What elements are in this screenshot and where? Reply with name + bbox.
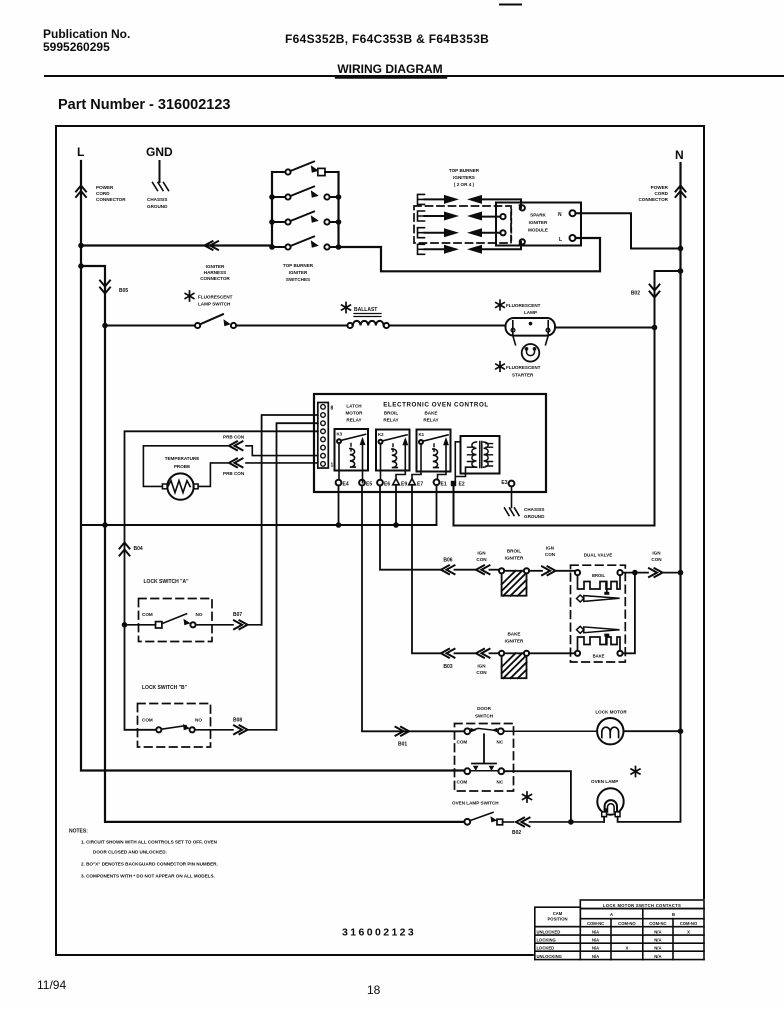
lock motor: [595, 710, 627, 715]
wire E5 drop to door switch feed (B01): [362, 486, 464, 732]
svg-text:18: 18: [367, 983, 381, 997]
top burner igniter switches: [272, 172, 339, 247]
svg-text:GROUND: GROUND: [524, 514, 545, 519]
svg-text:NO: NO: [196, 612, 203, 617]
svg-text:FLUORESCENT: FLUORESCENT: [506, 365, 541, 370]
svg-text:E6: E6: [384, 482, 390, 488]
broil igniter: [505, 549, 524, 561]
svg-text:PRB CON: PRB CON: [223, 435, 245, 440]
svg-text:OVEN LAMP: OVEN LAMP: [591, 779, 618, 784]
svg-text:BAKE: BAKE: [507, 632, 520, 637]
terminal E2: [451, 481, 456, 486]
svg-text:B04: B04: [134, 546, 143, 552]
junction dot: [78, 243, 84, 249]
connector B08: [234, 725, 248, 734]
wire to ballast: [236, 325, 347, 327]
svg-text:RELAY: RELAY: [346, 418, 361, 423]
wire ballast to fluorescent lamp: [389, 325, 506, 327]
svg-text:POSITION: POSITION: [547, 917, 567, 922]
relay K2 (broil relay): [383, 411, 398, 423]
wire lamp to N-branch junction: [555, 327, 655, 329]
junction dot B05 tee: [78, 263, 84, 269]
wire door NC top to lock motor: [504, 730, 597, 732]
svg-text:N/A: N/A: [592, 938, 599, 943]
svg-text:N/A: N/A: [592, 946, 599, 951]
wire pin6 to lock switch B (B08): [277, 423, 318, 730]
wire probe left loop to PRB CON / pin 2: [143, 446, 317, 487]
svg-text:B02: B02: [631, 291, 640, 297]
lock switch B: [142, 685, 188, 691]
svg-text:LOCKING: LOCKING: [537, 938, 556, 943]
wire E3 to chassis ground: [511, 486, 513, 507]
switch row 4: [269, 237, 341, 250]
wire pin7 to lock switch A (B07): [262, 415, 318, 625]
wire switch bank to spark module L: [339, 238, 601, 271]
svg-text:N/A: N/A: [654, 946, 661, 951]
switch row 1: [272, 162, 339, 176]
svg-text:Part Number - 316002123: Part Number - 316002123: [58, 97, 231, 113]
connector IGN CON (valve right): [649, 568, 663, 577]
spark igniter row 4: [418, 242, 522, 255]
junction dot bus/left drop: [102, 522, 108, 528]
svg-text:POWER: POWER: [651, 185, 669, 190]
svg-text:E2: E2: [459, 482, 465, 488]
svg-text:BAKE: BAKE: [593, 654, 605, 659]
junction dot lamp-switch tee: [102, 323, 108, 329]
svg-text:NC: NC: [497, 780, 504, 785]
svg-text:N/A: N/A: [592, 954, 599, 959]
lock motor switch contacts table: [535, 900, 704, 960]
svg-text:K2: K2: [378, 432, 384, 437]
lock switch A: [144, 579, 190, 585]
svg-text:UNLOCKED: UNLOCKED: [537, 929, 561, 934]
svg-text:DOOR CLOSED AND UNLOCKED.: DOOR CLOSED AND UNLOCKED.: [93, 850, 167, 855]
igniter harness connector: [205, 241, 219, 250]
bake valve solenoid: [578, 637, 621, 651]
wire oven lamp feet to row and N rail: [604, 731, 680, 822]
svg-text:BROIL: BROIL: [507, 549, 521, 554]
wire GND stub: [159, 161, 161, 182]
svg-text:COM: COM: [142, 718, 153, 723]
svg-text:CON: CON: [545, 552, 556, 557]
svg-text:CONNECTOR: CONNECTOR: [96, 197, 126, 202]
svg-text:PROBE: PROBE: [174, 464, 190, 469]
svg-text:ELECTRONIC OVEN CONTROL: ELECTRONIC OVEN CONTROL: [383, 402, 489, 409]
svg-text:COM: COM: [457, 780, 468, 785]
svg-text:N: N: [675, 148, 684, 162]
svg-text:IGNITER: IGNITER: [505, 556, 524, 561]
chassis ground (EOC): [505, 508, 520, 516]
svg-text:IGN: IGN: [477, 664, 486, 669]
junction dot lamp tee: [652, 325, 658, 331]
wire pin5 to B04 drop: [125, 431, 318, 730]
power cord connector (right): [676, 186, 686, 198]
svg-text:1: 1: [331, 463, 334, 469]
svg-text:LOCKED: LOCKED: [537, 946, 555, 951]
svg-text:COM-NO: COM-NO: [680, 921, 698, 926]
svg-text:CONNECTOR: CONNECTOR: [200, 276, 230, 281]
wire main top run L to switch bank: [81, 244, 272, 246]
dashed enclosure (2 or 4): [414, 206, 511, 243]
svg-text:BAKE: BAKE: [424, 411, 437, 416]
svg-text:RELAY: RELAY: [383, 418, 398, 423]
wire E4 drop: [338, 486, 340, 526]
top burner igniters label: [449, 168, 480, 187]
fluorescent starter: [513, 336, 548, 345]
svg-text:N/A: N/A: [592, 929, 599, 934]
header text: Publication No.: [43, 27, 130, 54]
wire bake valve right riser: [623, 573, 635, 654]
svg-text:COM-NO: COM-NO: [618, 921, 636, 926]
svg-text:B02: B02: [512, 830, 521, 836]
svg-text:L: L: [559, 237, 562, 243]
svg-text:N/A: N/A: [654, 938, 661, 943]
svg-text:LOCK MOTOR SWITCH CONTACTS: LOCK MOTOR SWITCH CONTACTS: [603, 903, 681, 908]
svg-text:8: 8: [331, 406, 334, 412]
svg-text:LOCK MOTOR: LOCK MOTOR: [595, 710, 627, 715]
svg-text:POWER: POWER: [96, 185, 114, 190]
spark igniter row 2: [418, 211, 501, 221]
svg-text:BALLAST: BALLAST: [354, 307, 377, 313]
connector PRB CON (bottom): [229, 459, 243, 468]
svg-text:B: B: [672, 912, 675, 917]
svg-text:N/A: N/A: [654, 954, 661, 959]
left bus: [271, 172, 273, 247]
svg-text:SWITCH: SWITCH: [475, 714, 494, 719]
terminal E3: [501, 480, 507, 486]
temperature probe: [165, 456, 200, 469]
svg-text:UNLOCKING: UNLOCKING: [537, 954, 562, 959]
power cord connector (left): [76, 186, 86, 198]
part number stamp: [342, 927, 416, 939]
wire E6 drop to broil igniter row (B06): [380, 486, 440, 570]
wire E1 drop (bus end): [436, 485, 438, 525]
terminal E9: [393, 479, 400, 485]
svg-text:CON: CON: [476, 670, 487, 675]
svg-text:3. COMPONENTS WITH * DO NOT: 3. COMPONENTS WITH * DO NOT APPEAR ON AL…: [81, 874, 215, 879]
dual valve: [584, 553, 613, 558]
wire door NC bottom to lamp junction: [504, 771, 571, 822]
wire L bus (relay common feed): [81, 524, 437, 526]
bake valve armature: [577, 626, 584, 633]
svg-text:SPARK: SPARK: [530, 213, 546, 218]
svg-text:SWITCHES: SWITCHES: [286, 277, 310, 282]
wire B05 branch: [81, 266, 105, 326]
svg-text:E5: E5: [366, 482, 372, 488]
svg-text:IGN: IGN: [652, 551, 661, 556]
junction dot N/B02 branch: [678, 268, 684, 274]
relay K3 (latch motor relay): [345, 404, 363, 423]
svg-text:A: A: [610, 912, 613, 917]
wire B02 branch to EOC E2: [454, 271, 681, 526]
connector B02 (lamp switch): [516, 818, 530, 827]
svg-text:FLUORESCENT: FLUORESCENT: [198, 295, 233, 300]
broil valve solenoid: [575, 570, 580, 575]
svg-text:PRB CON: PRB CON: [223, 471, 245, 476]
connector B07: [234, 620, 248, 629]
connector B02 (top): [650, 285, 660, 298]
svg-text:CHASSIS: CHASSIS: [524, 507, 544, 512]
scan artifact top: [500, 4, 521, 6]
svg-text:LAMP: LAMP: [524, 310, 537, 315]
svg-text:FLUORESCENT: FLUORESCENT: [506, 303, 541, 308]
switch row 2: [269, 187, 341, 200]
header text: part number: [58, 97, 231, 113]
connector B01: [396, 727, 410, 736]
svg-text:COM: COM: [457, 740, 468, 745]
junction dot N/module: [678, 246, 684, 252]
svg-text:B06: B06: [443, 558, 452, 564]
header text: model numbers: [285, 32, 489, 46]
svg-text:GROUND: GROUND: [147, 204, 168, 209]
electronic oven control box: [314, 394, 546, 492]
svg-text:GND: GND: [146, 145, 173, 159]
pin N: [558, 212, 562, 218]
svg-text:X: X: [687, 929, 690, 934]
wire N rail: [679, 163, 681, 731]
terminal E5: [359, 480, 365, 486]
terminal E1: [434, 479, 440, 485]
svg-text:CORD: CORD: [96, 191, 110, 196]
EOC connector strip P1: [318, 403, 329, 469]
svg-text:MOTOR: MOTOR: [345, 411, 363, 416]
svg-text:WIRING DIAGRAM: WIRING DIAGRAM: [337, 62, 442, 76]
connector B04: [120, 543, 130, 556]
terminal E4: [336, 480, 342, 486]
svg-text:E4: E4: [343, 482, 349, 488]
svg-text:CON: CON: [476, 557, 487, 562]
junction dot lamp/switch: [568, 819, 574, 825]
wire probe right to PRB CON / pin 1: [198, 463, 318, 487]
connector IGN CON (broil left): [476, 565, 490, 574]
svg-text:NC: NC: [497, 740, 504, 745]
notes: [69, 829, 218, 879]
svg-text:TOP BURNER: TOP BURNER: [449, 168, 480, 173]
svg-text:NOTES:: NOTES:: [69, 829, 88, 835]
svg-text:F64S352B, F64C353B & F64B353B: F64S352B, F64C353B & F64B353B: [285, 32, 489, 46]
svg-text:DUAL VALVE: DUAL VALVE: [584, 553, 613, 558]
svg-text:BROIL: BROIL: [384, 411, 398, 416]
node N: [675, 148, 684, 162]
svg-text:B03: B03: [443, 664, 452, 670]
svg-text:316002123: 316002123: [342, 927, 416, 939]
svg-text:K3: K3: [337, 432, 343, 437]
table background mask: [534, 899, 705, 961]
svg-text:IGNITER: IGNITER: [505, 639, 524, 644]
node L: [77, 145, 84, 159]
svg-text:B07: B07: [233, 612, 242, 618]
svg-text:NO: NO: [195, 718, 202, 723]
svg-text:IGN: IGN: [477, 551, 486, 556]
svg-text:CON: CON: [651, 557, 662, 562]
svg-text:E1: E1: [441, 482, 447, 488]
svg-text:COM: COM: [142, 612, 153, 617]
svg-text:CHASSIS: CHASSIS: [147, 197, 167, 202]
relay K1 (bake relay): [423, 411, 438, 423]
ballast: [347, 323, 352, 328]
svg-text:OVEN LAMP SWITCH: OVEN LAMP SWITCH: [452, 801, 499, 806]
svg-text:K1: K1: [419, 432, 425, 437]
svg-text:CORD: CORD: [654, 191, 668, 196]
oven lamp: [591, 779, 618, 784]
svg-text:E9: E9: [401, 482, 407, 488]
wire broil valve to N rail: [623, 572, 648, 574]
terminal E7: [409, 479, 416, 485]
wire E7 drop to bake igniter row (B03): [412, 485, 440, 654]
svg-text:N: N: [558, 212, 562, 218]
spark igniter module U1: [496, 203, 581, 246]
oven lamp switch: [452, 801, 499, 806]
spark igniter row 3: [418, 228, 501, 238]
chassis ground (top): [153, 183, 169, 191]
svg-text:COM-NC: COM-NC: [587, 921, 604, 926]
wire module N to N rail: [576, 213, 681, 248]
wire lock motor to N rail: [624, 730, 681, 732]
svg-text:B05: B05: [119, 288, 128, 294]
bake igniter: [505, 632, 524, 644]
fluorescent lamp switch: [105, 325, 195, 327]
right bus: [337, 172, 339, 247]
svg-text:LAMP SWITCH: LAMP SWITCH: [198, 302, 231, 307]
svg-text:CONNECTOR: CONNECTOR: [638, 197, 668, 202]
svg-text:1. CIRCUIT SHOWN WITH ALL CON: 1. CIRCUIT SHOWN WITH ALL CONTROLS SET T…: [81, 840, 218, 845]
connector IGN CON (bake left): [476, 649, 490, 658]
terminal E6: [377, 480, 383, 486]
svg-text:TOP BURNER: TOP BURNER: [283, 263, 314, 268]
fluorescent lamp: [506, 318, 556, 336]
wire left long drop to oven lamp switch row: [105, 326, 464, 822]
svg-text:IGN: IGN: [546, 546, 555, 551]
transformer T1: [461, 436, 500, 474]
header rule: [45, 75, 784, 77]
svg-text:BROIL: BROIL: [592, 573, 605, 578]
svg-text:MODULE: MODULE: [528, 228, 548, 233]
svg-text:DOOR: DOOR: [477, 706, 491, 711]
svg-text:2. BO"X" DENOTES BACKGUARD CO: 2. BO"X" DENOTES BACKGUARD CONNECTOR PIN…: [81, 862, 218, 867]
svg-text:5995260295: 5995260295: [43, 40, 110, 54]
svg-text:COM-NC: COM-NC: [649, 921, 666, 926]
svg-text:Publication No.: Publication No.: [43, 27, 130, 41]
wire E9 drop: [395, 485, 397, 525]
connector PRB CON (top): [229, 441, 243, 450]
svg-text:IGNITER: IGNITER: [289, 270, 308, 275]
svg-text:IGNITER: IGNITER: [529, 220, 548, 225]
svg-text:LOCK SWITCH "B": LOCK SWITCH "B": [142, 685, 188, 691]
svg-text:B08: B08: [233, 718, 242, 724]
svg-text:11/94: 11/94: [37, 978, 66, 992]
svg-text:TEMPERATURE: TEMPERATURE: [165, 456, 200, 461]
svg-text:B01: B01: [398, 742, 407, 748]
pin L: [559, 237, 562, 243]
svg-text:L: L: [77, 145, 84, 159]
broil igniter row: connector B06: [441, 565, 455, 574]
svg-text:STARTER: STARTER: [512, 373, 534, 378]
broil valve armature: [577, 595, 584, 602]
switch row 3: [269, 212, 341, 225]
svg-text:IGNITERS: IGNITERS: [453, 175, 475, 180]
svg-text:( 2 OR 4 ): ( 2 OR 4 ): [454, 182, 475, 187]
svg-text:LOCK SWITCH "A": LOCK SWITCH "A": [144, 579, 190, 585]
door switch: [475, 706, 494, 719]
svg-text:HARNESS: HARNESS: [204, 270, 226, 275]
svg-text:X: X: [626, 946, 629, 951]
spark igniter row 1: [418, 194, 522, 208]
svg-text:E7: E7: [417, 482, 423, 488]
svg-text:CAM: CAM: [553, 911, 563, 916]
svg-text:RELAY: RELAY: [423, 418, 438, 423]
connector IGN CON (broil right): [542, 566, 556, 575]
footer: [37, 978, 381, 997]
wire L rail: [81, 161, 464, 771]
node GND: [146, 145, 173, 159]
header text: WIRING DIAGRAM: [337, 62, 442, 76]
connector B05: [100, 281, 110, 294]
svg-text:IGNITER: IGNITER: [206, 264, 225, 269]
svg-text:E3: E3: [501, 480, 507, 486]
bake igniter row: connector B03: [441, 649, 455, 658]
svg-text:N/A: N/A: [654, 929, 661, 934]
diagram border frame: [56, 126, 704, 955]
svg-text:LATCH: LATCH: [346, 404, 362, 409]
